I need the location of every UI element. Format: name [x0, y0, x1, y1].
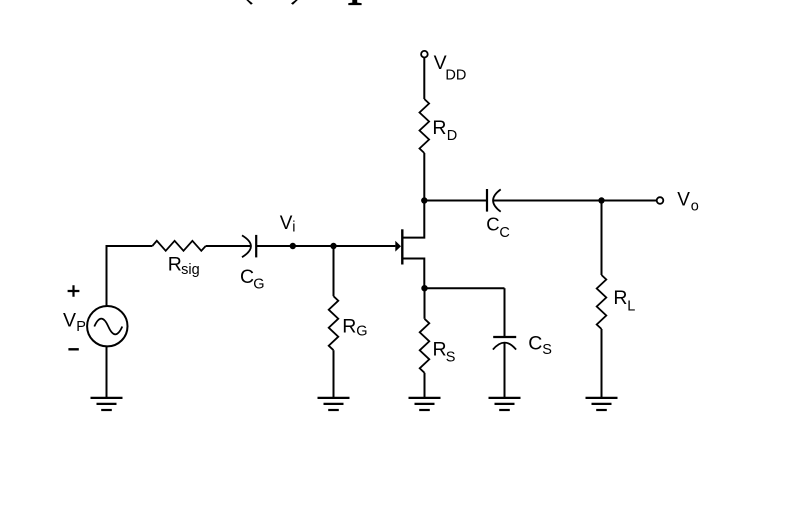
capacitor CS curved plate [493, 343, 516, 350]
svg-text:R: R [168, 254, 182, 276]
transistor Q1 gate arrow [395, 241, 401, 252]
transistor Q1 gate bar [401, 229, 403, 264]
ground (RG) [318, 398, 350, 410]
wire CC to output terminal [494, 200, 657, 202]
wire VP top to input row [107, 246, 153, 306]
node Vi [290, 243, 296, 249]
wire RS to ground [424, 373, 426, 398]
transistor Q1 source tap [402, 259, 424, 289]
node drain [421, 197, 427, 203]
resistor RL [597, 275, 607, 329]
svg-text:i: i [292, 219, 295, 235]
wire CS top lead [504, 288, 506, 336]
svg-text:S: S [446, 349, 456, 365]
terminal Vo [657, 197, 664, 204]
transistor Q1 drain tap [402, 201, 424, 238]
resistor Rsig [152, 241, 205, 251]
svg-text:o: o [691, 198, 699, 214]
svg-text:G: G [253, 276, 264, 292]
svg-text:R: R [613, 287, 627, 309]
svg-text:D: D [447, 128, 457, 144]
wire source node to CS branch [425, 287, 505, 289]
ground (RS) [409, 398, 441, 410]
svg-text:C: C [499, 225, 509, 241]
node output [598, 197, 604, 203]
svg-text:R: R [432, 117, 446, 139]
svg-text:G: G [356, 323, 367, 339]
svg-text:V: V [280, 213, 293, 234]
svg-text:L: L [627, 299, 635, 315]
node junction to RG [330, 243, 336, 249]
wire VP bottom to ground [106, 346, 108, 397]
wire RL to ground [601, 329, 603, 398]
ground (CS) [489, 398, 521, 410]
capacitor CC straight plate [486, 189, 488, 212]
wire drain to RD [423, 153, 425, 201]
capacitor CS straight plate [493, 336, 516, 338]
svg-text:DD: DD [445, 67, 466, 83]
svg-text:C: C [486, 213, 499, 234]
ground (VP) [91, 398, 123, 410]
svg-text:sig: sig [181, 262, 200, 278]
svg-text:R: R [433, 339, 447, 361]
capacitor CG curved plate [242, 235, 251, 257]
capacitor CG straight plate [255, 235, 257, 258]
cropped text fragment: bottom of right parenthesis [291, 0, 298, 5]
wire source node to RS [424, 288, 426, 319]
wire CS bottom lead [504, 343, 506, 398]
svg-text:C: C [240, 266, 254, 288]
resistor RS [420, 319, 430, 373]
wire RD to VDD terminal [423, 58, 425, 99]
wire drain to CC [424, 200, 486, 202]
plus polarity mark [68, 285, 80, 297]
resistor RG [329, 296, 339, 350]
wire output node to RL [601, 201, 603, 276]
minus polarity mark [68, 348, 78, 350]
wire CG to gate arrow [256, 245, 395, 247]
ground (RL) [586, 398, 618, 410]
svg-text:V: V [63, 310, 76, 332]
cropped text fragment: bottom of left parenthesis [246, 0, 253, 5]
wire node to RG [333, 246, 335, 296]
node source [421, 285, 427, 291]
wire Rsig to CG [206, 245, 250, 247]
svg-text:C: C [528, 332, 542, 354]
svg-text:S: S [542, 342, 552, 358]
source VP [87, 306, 127, 346]
wire RG to ground [333, 350, 335, 397]
svg-text:R: R [342, 316, 356, 338]
resistor RD [420, 99, 430, 153]
cropped text fragment: serif letter foot [348, 0, 361, 5]
capacitor CC curved plate [493, 189, 501, 211]
sine wave inside VP [94, 319, 122, 335]
terminal VDD [421, 51, 428, 58]
svg-text:V: V [677, 189, 690, 210]
svg-text:P: P [76, 319, 86, 335]
